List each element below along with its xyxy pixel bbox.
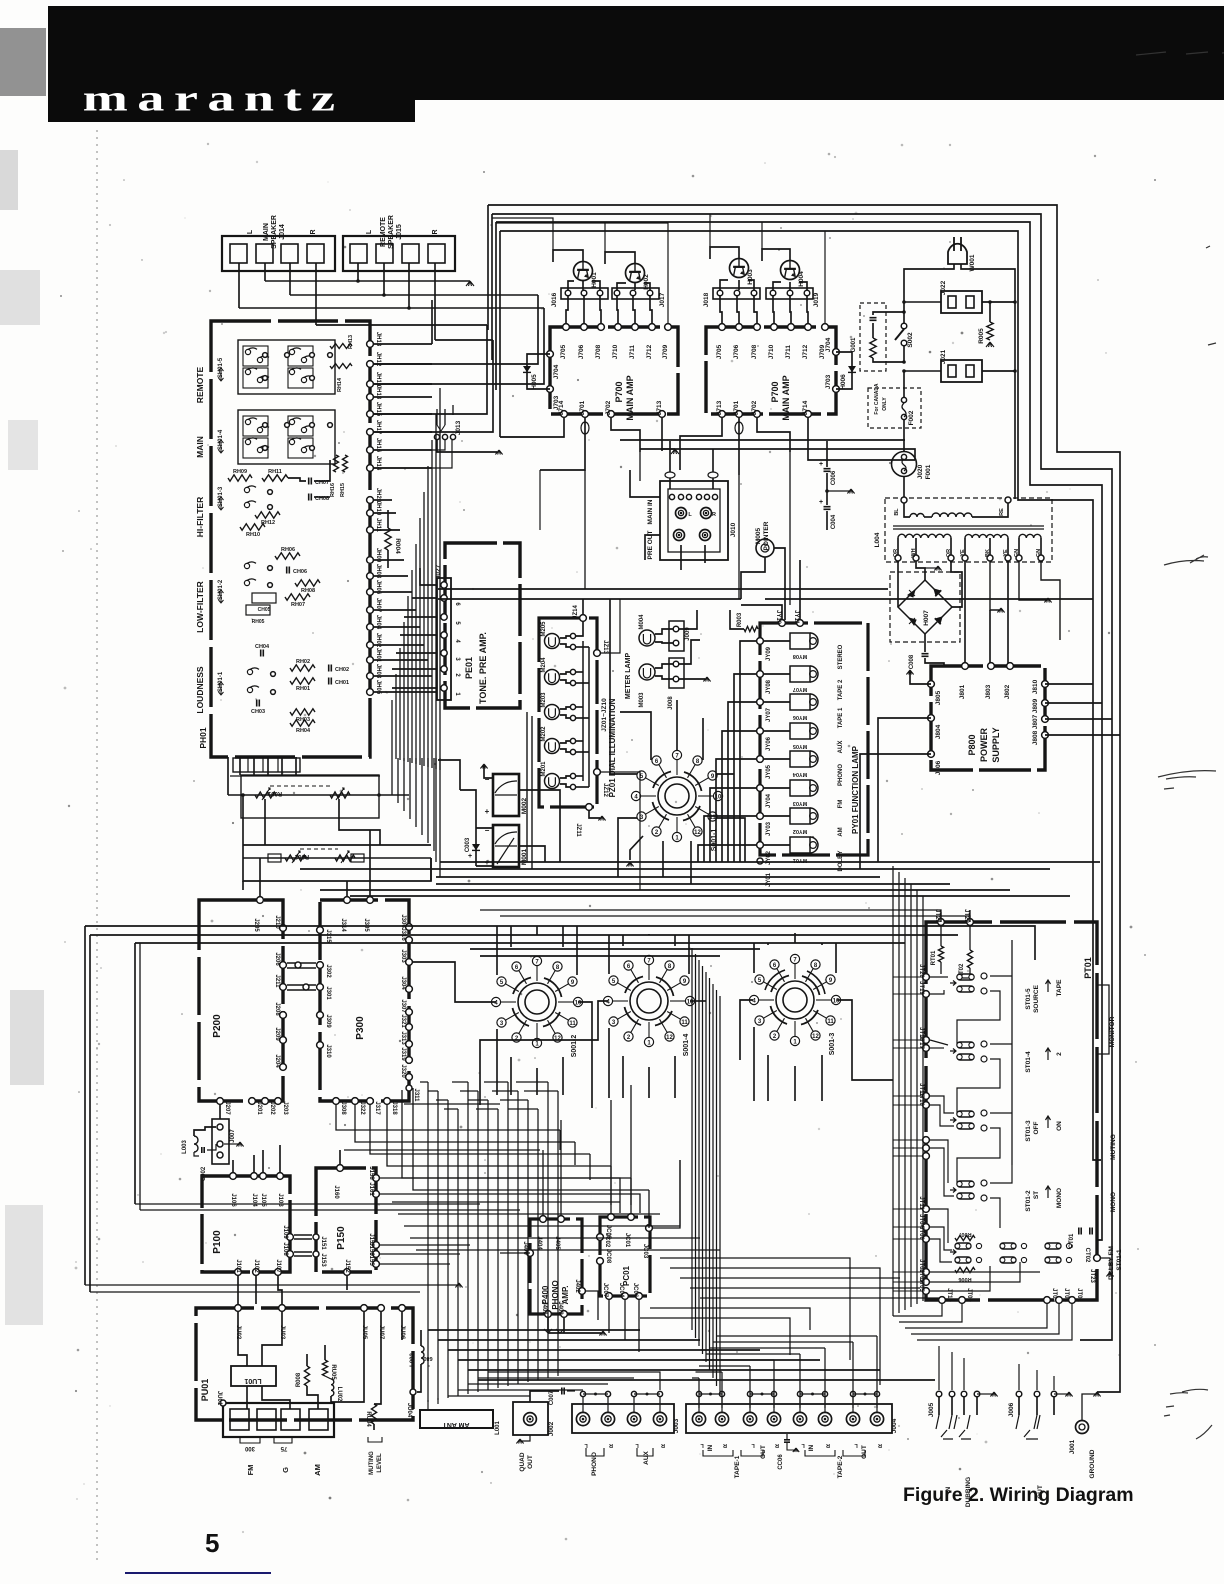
svg-text:LEVEL: LEVEL	[377, 1453, 383, 1473]
svg-text:S001-2: S001-2	[571, 1035, 578, 1058]
svg-text:OR: OR	[893, 549, 899, 557]
wire	[478, 1377, 634, 1379]
svg-text:J158: J158	[368, 1166, 374, 1180]
wire	[398, 1213, 660, 1215]
wire amp outputs	[500, 418, 564, 437]
wire	[433, 758, 435, 851]
svg-text:J303: J303	[400, 949, 406, 963]
wire	[496, 223, 668, 323]
svg-text:J712: J712	[802, 344, 809, 359]
svg-text:J708: J708	[751, 344, 758, 359]
wire	[716, 990, 718, 1386]
wire	[374, 440, 452, 468]
wire	[916, 890, 918, 1304]
wire	[407, 596, 409, 762]
svg-text:H001: H001	[591, 272, 598, 288]
module P700 MAIN AMP (left)	[550, 327, 678, 414]
wire	[738, 475, 740, 599]
wire	[562, 1057, 564, 1095]
wire	[374, 340, 493, 432]
svg-text:CH03: CH03	[251, 709, 265, 715]
resistor RU05	[322, 1360, 327, 1376]
wire	[420, 568, 437, 585]
wire	[232, 1160, 234, 1172]
svg-text:TAPE-1: TAPE-1	[734, 1455, 741, 1478]
wire	[387, 1105, 611, 1166]
svg-text:JY04: JY04	[766, 793, 772, 808]
wire	[911, 1304, 1059, 1334]
wire	[610, 1100, 612, 1213]
wire	[380, 1178, 620, 1213]
svg-text:ONLY: ONLY	[882, 397, 888, 411]
svg-text:IN: IN	[707, 1444, 714, 1451]
svg-text:JY08: JY08	[766, 679, 772, 694]
wire	[460, 1090, 478, 1092]
svg-text:J708: J708	[595, 344, 602, 359]
wire	[468, 1383, 608, 1385]
wire rectifier	[897, 561, 899, 607]
wire	[488, 205, 1120, 1392]
svg-text:J804: J804	[935, 724, 942, 739]
wire transistor leads	[568, 281, 574, 290]
wire	[559, 1130, 561, 1150]
svg-text:RH15: RH15	[340, 483, 346, 497]
wire	[85, 926, 1035, 960]
wire	[821, 943, 823, 945]
wire	[374, 659, 428, 661]
wire	[404, 1103, 500, 1105]
switch ST01-1 DOLBY FM	[955, 1235, 975, 1240]
svg-text:C006: C006	[831, 470, 837, 485]
connector strip PH01 bottom	[233, 758, 300, 772]
svg-text:J702: J702	[605, 400, 612, 415]
resistor RU04	[371, 1404, 376, 1424]
transistor H001	[574, 262, 593, 281]
svg-text:R: R	[661, 1442, 665, 1448]
svg-text:J301: J301	[325, 986, 331, 1000]
wire	[488, 1372, 660, 1390]
wire	[399, 648, 401, 760]
wire tuner internals	[238, 1312, 247, 1366]
svg-text:J801: J801	[959, 684, 966, 699]
wire	[893, 1095, 922, 1097]
wire	[374, 529, 400, 531]
svg-text:P150: P150	[336, 1226, 347, 1250]
wire	[412, 597, 437, 599]
svg-text:RH11: RH11	[268, 469, 282, 475]
wire	[346, 1276, 348, 1290]
svg-text:M205: M205	[541, 621, 547, 637]
wire	[396, 652, 437, 654]
svg-text:CH06: CH06	[293, 569, 307, 575]
wire	[728, 702, 756, 862]
wire	[620, 712, 651, 760]
connector J015 REMOTE SPEAKER	[343, 236, 455, 271]
svg-text:JY03: JY03	[766, 821, 772, 836]
svg-text:J209: J209	[274, 1027, 280, 1041]
svg-text:12: 12	[554, 1036, 561, 1042]
wire	[878, 718, 931, 862]
bottom blue rule	[125, 1572, 271, 1574]
wire	[438, 1339, 700, 1341]
wire	[415, 758, 417, 827]
wire	[262, 1150, 264, 1172]
svg-text:L003: L003	[182, 1140, 188, 1154]
wire	[435, 414, 437, 769]
module PE01 TONE PRE AMP	[445, 543, 520, 708]
svg-text:R008: R008	[296, 1372, 302, 1387]
svg-text:J109: J109	[282, 1225, 288, 1239]
svg-text:J805: J805	[935, 690, 942, 705]
svg-text:POWER: POWER	[979, 728, 989, 763]
wire	[767, 943, 769, 945]
wire	[403, 758, 405, 811]
switch SH01-5 (remote)	[238, 340, 335, 394]
svg-text:+: +	[819, 499, 823, 506]
lamp M004	[639, 630, 655, 646]
svg-text:PHONO: PHONO	[838, 764, 844, 786]
wire	[688, 935, 690, 974]
wire	[702, 718, 704, 760]
lamp MY01	[757, 842, 764, 849]
wire	[765, 598, 1093, 600]
wire	[789, 452, 791, 605]
svg-text:J318: J318	[391, 1101, 397, 1115]
meter M002	[493, 774, 519, 816]
svg-text:F002: F002	[908, 410, 915, 425]
svg-text:J313: J313	[400, 1031, 406, 1045]
svg-text:RH09: RH09	[233, 469, 247, 475]
svg-text:M204: M204	[541, 657, 547, 673]
wire	[439, 758, 441, 877]
svg-text:S001-1: S001-1	[711, 829, 718, 852]
wire	[794, 933, 796, 943]
wire	[410, 1237, 700, 1239]
svg-text:J710: J710	[768, 344, 775, 359]
wire	[662, 841, 664, 877]
capacitor C007	[562, 1388, 564, 1395]
svg-text:PE01: PE01	[464, 657, 474, 679]
svg-text:JT23: JT23	[1089, 1269, 1095, 1283]
wire	[496, 222, 1102, 1240]
svg-text:L: L	[247, 229, 254, 234]
svg-text:YE: YE	[960, 549, 966, 557]
svg-text:AM: AM	[838, 827, 844, 836]
wire	[893, 1139, 922, 1141]
svg-text:J710: J710	[612, 344, 619, 359]
wire	[582, 599, 584, 614]
wire	[610, 1166, 612, 1205]
svg-text:TAPE 2: TAPE 2	[838, 679, 844, 700]
switch ST01-2 MONO	[957, 1181, 974, 1187]
wire	[660, 1258, 850, 1360]
svg-text:POINTER: POINTER	[763, 521, 770, 550]
wire	[402, 1090, 631, 1178]
svg-text:R004: R004	[394, 538, 401, 554]
svg-text:JY09: JY09	[766, 646, 772, 661]
svg-text:J201: J201	[256, 1101, 262, 1115]
svg-text:JY05: JY05	[766, 764, 772, 779]
svg-text:J021: J021	[940, 349, 947, 364]
diode H005	[527, 354, 550, 389]
potentiometer R002	[243, 857, 431, 859]
switch J006 DUBBING OUT	[1016, 1391, 1022, 1397]
wire	[458, 1359, 820, 1361]
wire	[917, 1304, 1072, 1340]
svg-text:H003: H003	[747, 269, 754, 285]
resistor R004	[387, 510, 389, 528]
capacitor C006	[826, 441, 828, 467]
wire	[420, 1081, 428, 1083]
module PC01	[600, 1217, 650, 1296]
svg-text:PT01: PT01	[1083, 957, 1093, 979]
wire	[519, 846, 545, 862]
svg-text:RH02: RH02	[296, 659, 310, 665]
svg-text:12: 12	[812, 1034, 819, 1040]
svg-text:12: 12	[694, 830, 701, 836]
wire	[539, 470, 541, 530]
svg-text:ST: ST	[1033, 1191, 1040, 1199]
AC plug W001	[948, 244, 967, 264]
wire	[427, 466, 429, 767]
wire	[470, 948, 760, 950]
wire	[500, 916, 970, 918]
svg-text:J807: J807	[1032, 714, 1039, 729]
wire	[411, 570, 413, 763]
wire	[487, 1100, 489, 1390]
capacitor CT01 CT02	[1079, 1228, 1081, 1235]
wire	[712, 984, 714, 1378]
svg-text:J702: J702	[751, 400, 758, 415]
wire	[320, 889, 1010, 891]
wire	[560, 1120, 562, 1215]
wire	[893, 976, 922, 978]
svg-text:OR: OR	[946, 549, 952, 557]
svg-text:J152: J152	[344, 1259, 350, 1273]
ground	[910, 672, 931, 684]
wire	[496, 926, 498, 975]
svg-text:J319: J319	[400, 1047, 406, 1061]
svg-text:5: 5	[205, 1528, 219, 1558]
svg-text:JT09: JT09	[966, 1288, 972, 1302]
wire	[374, 325, 487, 414]
svg-text:J703: J703	[825, 374, 832, 389]
svg-text:CT01: CT01	[1069, 1233, 1075, 1248]
svg-text:ST01-5: ST01-5	[1025, 988, 1032, 1010]
wire	[740, 641, 756, 862]
wire	[374, 330, 538, 364]
svg-text:J210: J210	[274, 915, 280, 929]
svg-text:R: R	[432, 229, 439, 234]
svg-text:P200: P200	[212, 1014, 223, 1038]
svg-text:M202: M202	[541, 726, 547, 742]
wire	[374, 449, 432, 451]
wire transistor leads	[720, 280, 728, 290]
svg-text:AM ANT: AM ANT	[442, 1421, 470, 1428]
wire	[536, 1068, 538, 1095]
wire	[397, 758, 399, 803]
wire jack risers	[580, 1391, 585, 1396]
svg-text:JT10: JT10	[946, 1288, 952, 1302]
svg-text:H007: H007	[923, 610, 930, 626]
svg-text:FM: FM	[246, 1465, 255, 1476]
svg-text:R003: R003	[737, 612, 743, 627]
wire	[415, 544, 417, 764]
svg-text:P100: P100	[212, 1230, 223, 1254]
wire	[653, 1160, 680, 1228]
svg-text:FM: FM	[838, 800, 844, 809]
wire	[478, 1379, 935, 1381]
svg-text:SOURCE: SOURCE	[1033, 984, 1040, 1012]
svg-text:M005: M005	[755, 527, 762, 544]
wire	[860, 754, 931, 869]
svg-text:JY07: JY07	[766, 707, 772, 722]
wire	[135, 942, 905, 944]
wire	[243, 844, 431, 846]
svg-text:J705: J705	[716, 344, 723, 359]
wire	[893, 1304, 942, 1316]
wire	[253, 1155, 255, 1172]
wire	[435, 758, 437, 862]
svg-text:HI-FILTER: HI-FILTER	[195, 497, 205, 537]
svg-text:MONO: MONO	[1110, 1192, 1117, 1212]
wire	[374, 431, 432, 433]
svg-text:J007: J007	[230, 1129, 236, 1143]
terminal J001 GROUND	[1076, 1421, 1089, 1434]
svg-text:R: R	[826, 1442, 830, 1448]
svg-text:CT02: CT02	[1084, 1248, 1090, 1263]
wire	[893, 993, 922, 995]
wire	[910, 884, 912, 1307]
wire	[698, 1378, 700, 1408]
svg-text:J211: J211	[274, 974, 280, 988]
svg-text:J304: J304	[400, 976, 406, 990]
wire	[438, 588, 888, 590]
module P300	[320, 900, 409, 1101]
svg-text:IN: IN	[808, 1444, 815, 1451]
wire	[339, 1150, 341, 1164]
wire	[374, 609, 416, 611]
svg-text:R: R	[775, 1442, 779, 1448]
wire	[799, 1354, 801, 1408]
svg-text:MUTING: MUTING	[369, 1451, 375, 1475]
svg-text:AUX: AUX	[643, 1450, 650, 1464]
svg-text:JC08: JC08	[605, 1249, 611, 1264]
svg-text:MY04: MY04	[792, 771, 807, 777]
wire speaker outputs	[238, 263, 240, 308]
svg-text:JC04: JC04	[618, 1283, 624, 1298]
svg-text:JZ01~JZ10: JZ01~JZ10	[601, 698, 608, 732]
wire	[84, 926, 86, 1285]
wire	[951, 1352, 953, 1390]
inductor L002	[421, 1346, 424, 1364]
svg-text:MUTING: MUTING	[1110, 1134, 1117, 1160]
svg-text:OFF: OFF	[1033, 1121, 1040, 1134]
wire	[447, 1100, 449, 1398]
wire	[622, 935, 624, 946]
svg-text:J006: J006	[1008, 1402, 1015, 1417]
svg-text:RH13: RH13	[348, 335, 354, 349]
wire	[753, 1027, 755, 1101]
diode H006	[836, 352, 852, 389]
svg-text:AM: AM	[313, 1464, 322, 1476]
svg-text:J003: J003	[673, 1418, 680, 1433]
lamp MY06	[757, 699, 764, 706]
wire	[717, 773, 734, 775]
wire	[419, 518, 421, 765]
rotary switch S001-3	[783, 988, 807, 1012]
wire	[346, 881, 348, 897]
svg-text:J713: J713	[656, 400, 663, 415]
wire	[542, 1150, 544, 1215]
wire	[898, 872, 900, 1313]
svg-text:ON: ON	[1056, 1121, 1063, 1131]
wire	[557, 1091, 559, 1376]
module PT01 (tape/dolby switches)	[926, 922, 1097, 1300]
wire	[893, 1208, 922, 1210]
wire	[452, 1081, 468, 1083]
wire	[721, 1372, 723, 1408]
wire	[416, 1249, 720, 1251]
svg-text:R: R	[609, 1442, 613, 1448]
wire	[709, 978, 711, 1370]
wire	[380, 1263, 450, 1265]
svg-text:JC07: JC07	[602, 1283, 608, 1298]
svg-text:M002: M002	[521, 797, 528, 814]
svg-text:J308: J308	[340, 1101, 346, 1115]
lamp M203	[545, 705, 560, 720]
svg-text:L001: L001	[495, 1421, 501, 1435]
svg-text:J704: J704	[825, 337, 832, 352]
svg-text:WH: WH	[911, 548, 917, 557]
svg-text:GROUND: GROUND	[1089, 1449, 1096, 1478]
wire	[85, 1284, 457, 1286]
connector J016	[561, 288, 608, 299]
wire P200-P300 links	[287, 962, 316, 964]
wire	[601, 772, 640, 890]
svg-text:BK: BK	[985, 549, 991, 557]
wire	[516, 1081, 548, 1083]
wire	[547, 1082, 549, 1378]
resistor R008	[304, 1366, 309, 1386]
wire	[892, 866, 894, 1316]
svg-text:J019: J019	[813, 292, 820, 307]
wire	[436, 883, 950, 885]
svg-text:J701: J701	[733, 400, 740, 415]
svg-text:DUBBING: DUBBING	[965, 1477, 972, 1507]
wire	[391, 700, 393, 758]
wire	[1045, 702, 1102, 704]
svg-text:RH07: RH07	[291, 602, 305, 608]
svg-text:P300: P300	[355, 1016, 366, 1040]
wire	[90, 1291, 420, 1293]
switch SH01-4 (main)	[238, 410, 335, 464]
wire	[648, 934, 650, 935]
svg-text:CH05: CH05	[258, 607, 271, 613]
wire	[374, 383, 432, 385]
wire	[350, 895, 1070, 897]
wire	[438, 598, 741, 600]
wire	[374, 626, 420, 628]
wire	[492, 1090, 518, 1092]
svg-text:J016: J016	[551, 292, 558, 307]
wire	[421, 758, 423, 835]
wire	[730, 610, 744, 629]
transistor H004	[781, 261, 800, 280]
wire	[578, 1002, 592, 1108]
wire	[499, 231, 501, 437]
wire	[905, 1304, 1047, 1328]
